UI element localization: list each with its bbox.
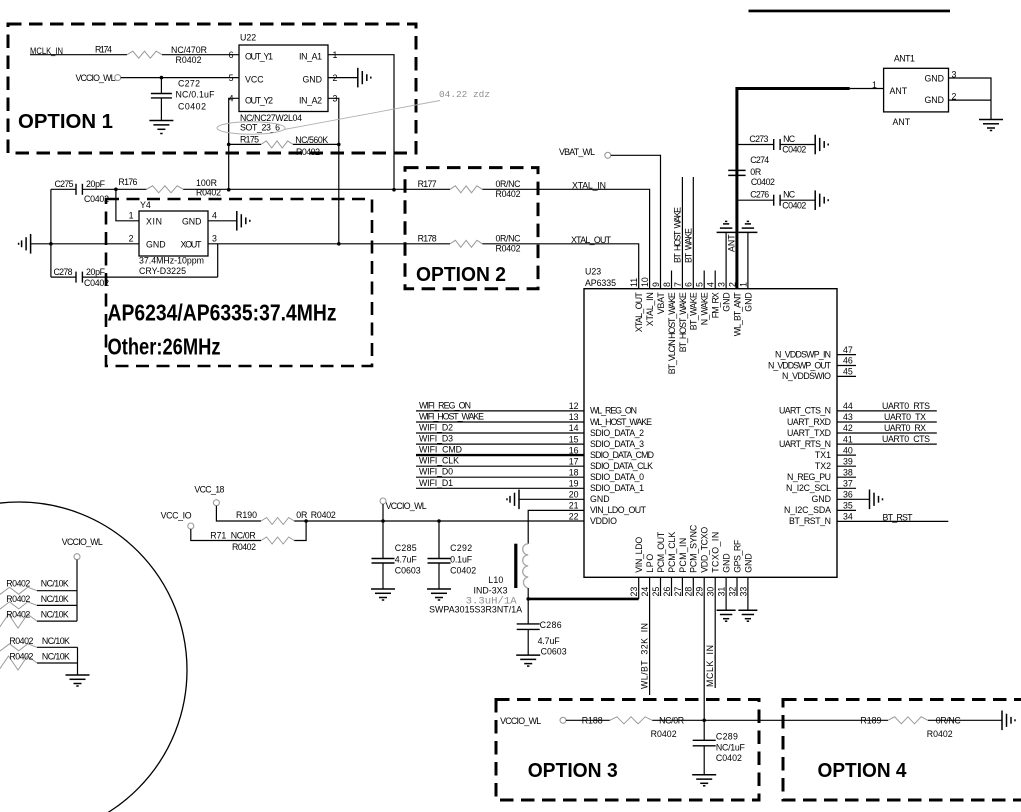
svg-text:R0402: R0402 xyxy=(496,189,521,199)
svg-text:C0402: C0402 xyxy=(751,177,775,187)
svg-text:35: 35 xyxy=(843,501,853,511)
svg-text:ANT: ANT xyxy=(727,234,737,252)
wire VCC_IO to R71 xyxy=(191,529,261,541)
wire VBAT_WL to U23 pin 9 xyxy=(611,155,661,288)
svg-text:XTAL_OUT: XTAL_OUT xyxy=(634,292,644,333)
svg-text:NC/10K: NC/10K xyxy=(41,594,69,604)
svg-text:UART_RTS_N: UART_RTS_N xyxy=(779,439,831,449)
svg-text:VDD_TCXO: VDD_TCXO xyxy=(700,527,710,573)
svg-text:20pF: 20pF xyxy=(86,267,106,277)
svg-text:GND: GND xyxy=(924,95,944,105)
ground at C286 xyxy=(516,655,540,666)
svg-text:NC/0R: NC/0R xyxy=(231,531,256,541)
svg-text:31: 31 xyxy=(717,587,727,597)
resistor R71 NC/0R xyxy=(210,531,294,552)
svg-text:VIN_LDO_OUT: VIN_LDO_OUT xyxy=(590,505,647,515)
resistor R175 NC/560K xyxy=(240,134,328,157)
svg-text:42: 42 xyxy=(843,423,853,433)
wire WIFI_HOST_WAKE xyxy=(416,412,584,423)
svg-text:20pF: 20pF xyxy=(86,179,106,189)
resistor pullup row3 NC/10K xyxy=(0,609,77,628)
svg-text:GND: GND xyxy=(182,216,202,226)
svg-text:SDIO_DATA_CLK: SDIO_DATA_CLK xyxy=(590,461,653,471)
node VCCIO_WL terminal mid xyxy=(380,498,427,523)
svg-text:SWPA3015S3R3NT/1A: SWPA3015S3R3NT/1A xyxy=(429,604,522,614)
svg-text:R175: R175 xyxy=(240,134,259,144)
capacitor C276 NC xyxy=(737,190,815,211)
U23 top pin numbers xyxy=(629,277,748,287)
svg-text:12: 12 xyxy=(569,401,579,411)
svg-text:GND: GND xyxy=(924,73,944,83)
svg-text:XIN: XIN xyxy=(146,216,162,226)
svg-text:BT_WAKE: BT_WAKE xyxy=(683,228,693,263)
svg-text:WIFI_HOST_WAKE: WIFI_HOST_WAKE xyxy=(419,412,484,422)
svg-text:C0402: C0402 xyxy=(84,278,109,288)
resistor R176 100R xyxy=(116,177,221,197)
svg-text:1: 1 xyxy=(872,80,877,90)
capacitor C286 4.7uF xyxy=(517,599,567,657)
ground at ANT1 xyxy=(979,120,1003,131)
svg-text:R0402: R0402 xyxy=(6,609,30,619)
svg-text:N_REG_PU: N_REG_PU xyxy=(787,472,831,482)
crystal option dashed box xyxy=(106,199,372,366)
inductor L10 3.3uH xyxy=(429,544,528,615)
svg-text:TX1: TX1 xyxy=(815,450,831,460)
U23 bottom stubs pins 25 26 27 28 32 xyxy=(661,577,738,596)
op-amp U22 body xyxy=(229,33,338,133)
resistor R188 NC/0R xyxy=(582,716,684,739)
svg-text:0R: 0R xyxy=(296,510,307,520)
svg-text:ANT: ANT xyxy=(890,86,908,96)
svg-text:CRY-D3225: CRY-D3225 xyxy=(139,266,186,276)
svg-text:25: 25 xyxy=(651,587,661,597)
svg-text:6: 6 xyxy=(684,282,694,287)
wire pin 33 to ground xyxy=(747,577,749,610)
capacitor C273 NC xyxy=(737,134,815,155)
U23 top pin names xyxy=(634,292,753,375)
svg-text:UART0_RX: UART0_RX xyxy=(884,423,926,433)
U23 right pin names xyxy=(768,349,832,526)
svg-text:11: 11 xyxy=(629,278,639,287)
wire BT_WAKE pin 6 xyxy=(683,177,693,289)
svg-text:36: 36 xyxy=(843,490,853,500)
junction pin1 drop on XTAL_IN xyxy=(392,188,396,192)
junction pin3 drop on XTAL_OUT xyxy=(337,242,341,246)
capacitor C292 0.1uF xyxy=(428,521,477,589)
wire U22 pin 4 to XTAL_IN net xyxy=(229,98,239,189)
wire VCCIO_WL to U22 pin 5 xyxy=(121,77,239,79)
svg-text:GND: GND xyxy=(743,292,753,312)
wire WIFI_D0 xyxy=(416,467,584,478)
svg-text:OPTION 2: OPTION 2 xyxy=(416,264,506,286)
svg-text:IN_A1: IN_A1 xyxy=(299,52,322,62)
svg-text:R71: R71 xyxy=(210,531,226,541)
svg-text:N_I2C_SDA: N_I2C_SDA xyxy=(784,505,831,515)
svg-text:N_VDDSWP_IN: N_VDDSWP_IN xyxy=(775,349,831,359)
svg-text:R0402: R0402 xyxy=(232,542,256,552)
svg-text:C0603: C0603 xyxy=(541,647,567,657)
svg-text:C0402: C0402 xyxy=(450,566,476,576)
svg-text:4.7uF: 4.7uF xyxy=(538,636,561,646)
svg-text:30: 30 xyxy=(706,587,716,597)
OPTION 2 dashed box xyxy=(405,168,538,289)
svg-text:Y4: Y4 xyxy=(140,200,151,210)
svg-text:20: 20 xyxy=(569,490,579,500)
wire cap ground rail vertical xyxy=(49,189,53,277)
ground at Y4 pin 4 (right-pointing) xyxy=(237,211,250,231)
svg-text:R177: R177 xyxy=(418,179,437,189)
svg-text:22: 22 xyxy=(569,512,579,522)
wire XTAL_OUT net xyxy=(208,235,639,289)
svg-text:28: 28 xyxy=(684,587,694,597)
svg-text:GND: GND xyxy=(146,239,166,249)
wire MCLK_IN to R174 xyxy=(30,54,127,56)
svg-text:VCCIO_WL: VCCIO_WL xyxy=(386,501,427,511)
U23 bottom pin names xyxy=(634,524,753,573)
svg-text:ANT1: ANT1 xyxy=(894,53,915,63)
ground at crystal (left-pointing) xyxy=(19,234,31,254)
wire pulldown to ground xyxy=(77,647,79,675)
svg-text:13: 13 xyxy=(569,412,579,422)
svg-text:29: 29 xyxy=(695,587,705,597)
antenna ANT1 body xyxy=(884,53,957,127)
wire U22 pin 3 to XTAL_OUT net xyxy=(328,98,339,244)
junction C292 tap xyxy=(437,519,441,523)
svg-text:0R/NC: 0R/NC xyxy=(496,179,522,189)
resistor R174 NC/470R xyxy=(95,45,207,65)
svg-text:TCXO_IN: TCXO_IN xyxy=(711,532,721,573)
capacitor C289 NC/1uF xyxy=(693,720,746,775)
ground at pin 33 xyxy=(738,610,757,621)
svg-text:R0402: R0402 xyxy=(9,652,33,662)
svg-text:WIFI_CMD: WIFI_CMD xyxy=(419,445,462,455)
svg-text:34: 34 xyxy=(843,512,853,522)
wire VCCIO_WL pullup rail xyxy=(76,560,78,621)
svg-text:R188: R188 xyxy=(582,716,603,726)
svg-text:9: 9 xyxy=(651,282,661,287)
U23 right pin numbers xyxy=(843,345,853,522)
crystal Y4 body xyxy=(129,200,217,276)
wire UART0_RX pin 42 xyxy=(837,423,937,433)
node VCC_IO terminal xyxy=(161,511,194,529)
ground at pin 36 (right-pointing) xyxy=(870,490,883,510)
svg-text:8: 8 xyxy=(662,282,672,287)
svg-text:R189: R189 xyxy=(860,716,881,726)
svg-text:VCCIO_WL: VCCIO_WL xyxy=(76,73,116,83)
svg-text:04.22 zdz: 04.22 zdz xyxy=(439,90,490,100)
svg-text:GND: GND xyxy=(722,292,732,312)
svg-text:N_VDDSWIO: N_VDDSWIO xyxy=(782,371,831,381)
svg-text:26: 26 xyxy=(662,587,672,597)
wire U23 pin 3 to upper ground xyxy=(725,232,727,288)
svg-text:UART_RXD: UART_RXD xyxy=(787,417,831,427)
wire pin 29 VDD_TCXO down to option 3 xyxy=(703,577,705,720)
svg-text:L10: L10 xyxy=(488,575,503,585)
svg-text:R0402: R0402 xyxy=(496,243,521,253)
svg-text:UART0_TX: UART0_TX xyxy=(884,412,926,422)
svg-text:XTAL_IN: XTAL_IN xyxy=(645,292,655,326)
svg-text:R0402: R0402 xyxy=(311,510,336,520)
svg-text:SDIO_DATA_1: SDIO_DATA_1 xyxy=(590,483,644,493)
svg-text:NC/470R: NC/470R xyxy=(171,45,207,55)
svg-text:R0402: R0402 xyxy=(927,729,953,739)
svg-text:C275: C275 xyxy=(55,179,74,189)
svg-text:OUT_Y2: OUT_Y2 xyxy=(245,95,273,105)
svg-text:PCM_IN: PCM_IN xyxy=(678,538,688,573)
svg-text:C285: C285 xyxy=(395,543,417,553)
svg-text:N_I2C_SCL: N_I2C_SCL xyxy=(786,483,831,493)
wire Y4 pin 4 to ground xyxy=(208,220,237,222)
svg-text:GND: GND xyxy=(743,553,753,573)
wire R71 up to rail xyxy=(294,519,308,540)
svg-text:24: 24 xyxy=(640,587,650,597)
svg-text:WIFI_CLK: WIFI_CLK xyxy=(419,456,459,466)
svg-text:OPTION 1: OPTION 1 xyxy=(18,111,113,133)
svg-text:XTAL_IN: XTAL_IN xyxy=(572,180,606,190)
svg-text:NC/10K: NC/10K xyxy=(42,652,70,662)
wire UART0_CTS pin 41 xyxy=(837,434,937,444)
svg-text:6: 6 xyxy=(229,50,234,60)
svg-text:0R: 0R xyxy=(750,167,761,177)
svg-text:WIFI_D0: WIFI_D0 xyxy=(419,467,453,477)
svg-text:45: 45 xyxy=(843,367,853,377)
resistor pulldown row5 NC/10K xyxy=(0,652,78,670)
svg-text:NC/10K: NC/10K xyxy=(41,579,69,589)
wire U22 pin 1 to XTAL_IN net xyxy=(328,55,394,190)
OPTION 3 dashed box xyxy=(496,700,759,801)
capacitor C275 20pF xyxy=(51,179,116,204)
svg-text:VCC_IO: VCC_IO xyxy=(161,511,192,521)
wire UART0_RTS pin 44 xyxy=(837,401,937,411)
svg-text:27: 27 xyxy=(673,587,683,597)
svg-text:15: 15 xyxy=(569,434,579,444)
wire ANT1 gnd pins xyxy=(949,78,992,120)
junction pin4 drop on XTAL_IN xyxy=(227,188,231,192)
svg-text:UART_TXD: UART_TXD xyxy=(787,428,831,438)
svg-text:WIFI_D2: WIFI_D2 xyxy=(419,423,453,433)
resistor R177 0R/NC xyxy=(418,179,522,199)
svg-text:4: 4 xyxy=(212,211,217,221)
wire pin 31 to ground xyxy=(725,577,727,610)
svg-text:AP6234/AP6335:37.4MHz: AP6234/AP6335:37.4MHz xyxy=(108,300,337,326)
wire WIFI_REG_ON xyxy=(416,400,584,411)
svg-text:Other:26MHz: Other:26MHz xyxy=(108,334,221,360)
capacitor C272 NC/0.1uF xyxy=(151,78,215,121)
svg-text:39: 39 xyxy=(843,456,853,466)
svg-text:FM_RX: FM_RX xyxy=(711,292,721,318)
ground at U22 pin 2 (right-pointing) xyxy=(358,68,371,88)
resistor pulldown row4 NC/10K xyxy=(0,636,78,651)
svg-text:WL_HOST_WAKE: WL_HOST_WAKE xyxy=(590,417,652,427)
svg-text:WL_BT_ANT: WL_BT_ANT xyxy=(732,292,742,337)
svg-text:LPO: LPO xyxy=(645,554,655,573)
junction R176 input node xyxy=(114,188,118,192)
ground at option4 (right-pointing) xyxy=(1002,711,1015,731)
svg-text:R0402: R0402 xyxy=(6,594,30,604)
svg-text:40: 40 xyxy=(843,445,853,455)
ground at pulldown rows xyxy=(66,675,90,686)
svg-text:R0402: R0402 xyxy=(9,636,33,646)
svg-text:4.7uF: 4.7uF xyxy=(395,555,418,565)
svg-text:GND: GND xyxy=(722,553,732,573)
svg-text:43: 43 xyxy=(843,412,853,422)
ground at C272 xyxy=(149,121,173,134)
wire BT_RST pin 34 xyxy=(837,512,948,522)
resistor pullup row2 NC/10K xyxy=(0,594,77,609)
wire BT_HOST_WAKE pin 7 xyxy=(672,177,682,289)
OPTION 1 dashed box xyxy=(8,24,416,153)
annotation gray ellipse and note 04.22 zdz xyxy=(217,90,490,134)
svg-text:BT_VLC/N HOST_WAKE: BT_VLC/N HOST_WAKE xyxy=(667,292,677,374)
svg-text:U23: U23 xyxy=(585,267,601,277)
svg-text:ANT: ANT xyxy=(893,117,911,127)
svg-text:R176: R176 xyxy=(118,177,137,187)
svg-text:R0402: R0402 xyxy=(296,147,320,157)
svg-text:C274: C274 xyxy=(750,155,769,165)
svg-text:0.1uF: 0.1uF xyxy=(450,555,473,565)
U23 right stubs xyxy=(837,355,856,511)
wire pin 30 TCXO_IN MCLK_IN xyxy=(705,577,715,688)
title block border bar xyxy=(749,10,951,13)
svg-text:R178: R178 xyxy=(418,233,437,243)
svg-text:C0402: C0402 xyxy=(782,200,806,210)
svg-text:VDDIO: VDDIO xyxy=(590,516,617,526)
ground at C289 xyxy=(692,775,716,786)
wire WIFI_D2 xyxy=(416,423,584,434)
wire thick antenna trace xyxy=(727,89,850,289)
svg-text:UART0_RTS: UART0_RTS xyxy=(882,401,930,411)
svg-text:WIFI_REG_ON: WIFI_REG_ON xyxy=(419,400,471,410)
node MCLK_IN xyxy=(30,46,63,56)
wire ground to Y4 pin 2 xyxy=(31,243,139,245)
svg-text:SDIO_DATA_CMD: SDIO_DATA_CMD xyxy=(590,450,654,460)
svg-text:16: 16 xyxy=(569,445,579,455)
svg-text:U22: U22 xyxy=(240,33,256,43)
svg-text:38: 38 xyxy=(843,467,853,477)
svg-text:PCM_CLK: PCM_CLK xyxy=(667,532,677,573)
svg-text:32: 32 xyxy=(727,587,737,597)
svg-text:3: 3 xyxy=(212,234,217,244)
svg-text:C289: C289 xyxy=(716,732,738,742)
wire pin 24 LPO WL/BT_32K_IN xyxy=(640,577,650,695)
svg-text:WIFI_D3: WIFI_D3 xyxy=(419,434,453,444)
svg-text:NC: NC xyxy=(783,190,796,200)
svg-text:VCCIO_WL: VCCIO_WL xyxy=(500,716,541,726)
svg-text:VBAT: VBAT xyxy=(656,292,666,315)
ground at C292 xyxy=(427,589,451,600)
svg-text:0R/NC: 0R/NC xyxy=(496,233,522,243)
svg-text:SDIO_DATA_3: SDIO_DATA_3 xyxy=(590,439,644,449)
svg-text:XOUT: XOUT xyxy=(181,239,203,249)
svg-text:19: 19 xyxy=(569,479,579,489)
svg-text:NC/10K: NC/10K xyxy=(42,636,70,646)
svg-text:GND: GND xyxy=(302,75,322,85)
svg-text:WIFI_D1: WIFI_D1 xyxy=(419,478,453,488)
svg-text:R0402: R0402 xyxy=(176,55,202,65)
svg-text:0R/NC: 0R/NC xyxy=(936,716,962,726)
svg-text:1: 1 xyxy=(738,282,748,287)
svg-text:5: 5 xyxy=(695,282,705,287)
wire option3 rail xyxy=(566,719,1002,721)
svg-text:VCC_18: VCC_18 xyxy=(194,485,224,495)
resistor R189 0R/NC xyxy=(860,716,961,739)
svg-text:14: 14 xyxy=(569,423,579,433)
node VCCIO_WL terminal option3 xyxy=(500,716,566,726)
svg-text:SOT_23_6: SOT_23_6 xyxy=(240,123,280,133)
wire R175 row xyxy=(227,143,341,147)
resistor R178 0R/NC xyxy=(418,233,522,253)
ground at C276 (right-pointing) xyxy=(815,190,828,210)
wire U23 pin 21 VIN_LDO_OUT to L10 xyxy=(528,510,584,543)
svg-text:SDIO_DATA_2: SDIO_DATA_2 xyxy=(590,428,644,438)
svg-text:AP6335: AP6335 xyxy=(585,278,616,288)
capacitor C274 0R series xyxy=(728,155,775,187)
node VBAT_WL terminal xyxy=(559,147,611,158)
wire R174 to U22 pin 6 xyxy=(162,54,239,56)
wire XTAL_IN net xyxy=(183,180,649,288)
svg-text:C0402: C0402 xyxy=(84,194,109,204)
resistor R190 0R xyxy=(236,510,336,524)
svg-text:2: 2 xyxy=(129,234,134,244)
svg-text:46: 46 xyxy=(843,356,853,366)
ground at pin 31 xyxy=(717,610,736,621)
wire VCCIO_WL rail xyxy=(294,520,584,522)
junction C289 tap xyxy=(702,719,706,723)
resistor pullup row1 NC/10K xyxy=(0,579,77,595)
wire UART0_TX pin 43 xyxy=(837,412,937,422)
svg-text:4: 4 xyxy=(706,282,716,287)
svg-text:NC/560K: NC/560K xyxy=(295,135,328,145)
svg-text:R190: R190 xyxy=(236,510,257,520)
svg-text:GND: GND xyxy=(811,494,831,504)
svg-text:10: 10 xyxy=(640,277,650,287)
svg-text:XTAL_OUT: XTAL_OUT xyxy=(571,235,612,245)
svg-text:17: 17 xyxy=(569,456,579,466)
svg-text:UART0_CTS: UART0_CTS xyxy=(882,434,930,444)
U23 bottom pin numbers xyxy=(629,587,748,597)
node VCC_18 terminal xyxy=(194,485,224,506)
svg-text:37: 37 xyxy=(843,479,853,489)
wire to ANT1 pin 1 xyxy=(850,80,884,90)
svg-text:PCM_SYNC: PCM_SYNC xyxy=(689,524,699,573)
svg-text:VCCIO_WL: VCCIO_WL xyxy=(62,537,103,547)
wire WIFI_CLK xyxy=(416,456,584,467)
svg-text:GPS_RF: GPS_RF xyxy=(732,539,742,573)
svg-text:44: 44 xyxy=(843,401,853,411)
IC U23 AP6335 body xyxy=(584,267,837,578)
svg-text:GND: GND xyxy=(590,494,610,504)
svg-text:MCLK_IN: MCLK_IN xyxy=(705,645,715,687)
large annotation circle xyxy=(0,502,187,812)
wire WIFI_D3 xyxy=(416,434,584,445)
ground upside-down at pin 3 xyxy=(717,221,736,232)
svg-text:37.4MHz-10ppm: 37.4MHz-10ppm xyxy=(139,256,204,266)
svg-text:UART_CTS_N: UART_CTS_N xyxy=(779,406,831,416)
svg-text:C273: C273 xyxy=(749,134,768,144)
svg-text:BT_WAKE: BT_WAKE xyxy=(689,292,699,330)
ground at C273 (right-pointing) xyxy=(815,135,828,155)
wire VCC_18 down to rail xyxy=(216,506,261,521)
svg-text:C0402: C0402 xyxy=(716,753,742,763)
wire L10 bottom junction xyxy=(526,588,530,601)
svg-text:NC/10K: NC/10K xyxy=(41,609,69,619)
OPTION 4 dashed box xyxy=(783,700,1021,801)
wire U23 pin 1 to upper ground xyxy=(747,232,749,288)
svg-text:33: 33 xyxy=(738,587,748,597)
ground at pin 20 (left-pointing) xyxy=(507,490,519,510)
svg-text:VIN_LDO: VIN_LDO xyxy=(634,537,644,573)
svg-text:C0402: C0402 xyxy=(782,145,806,155)
